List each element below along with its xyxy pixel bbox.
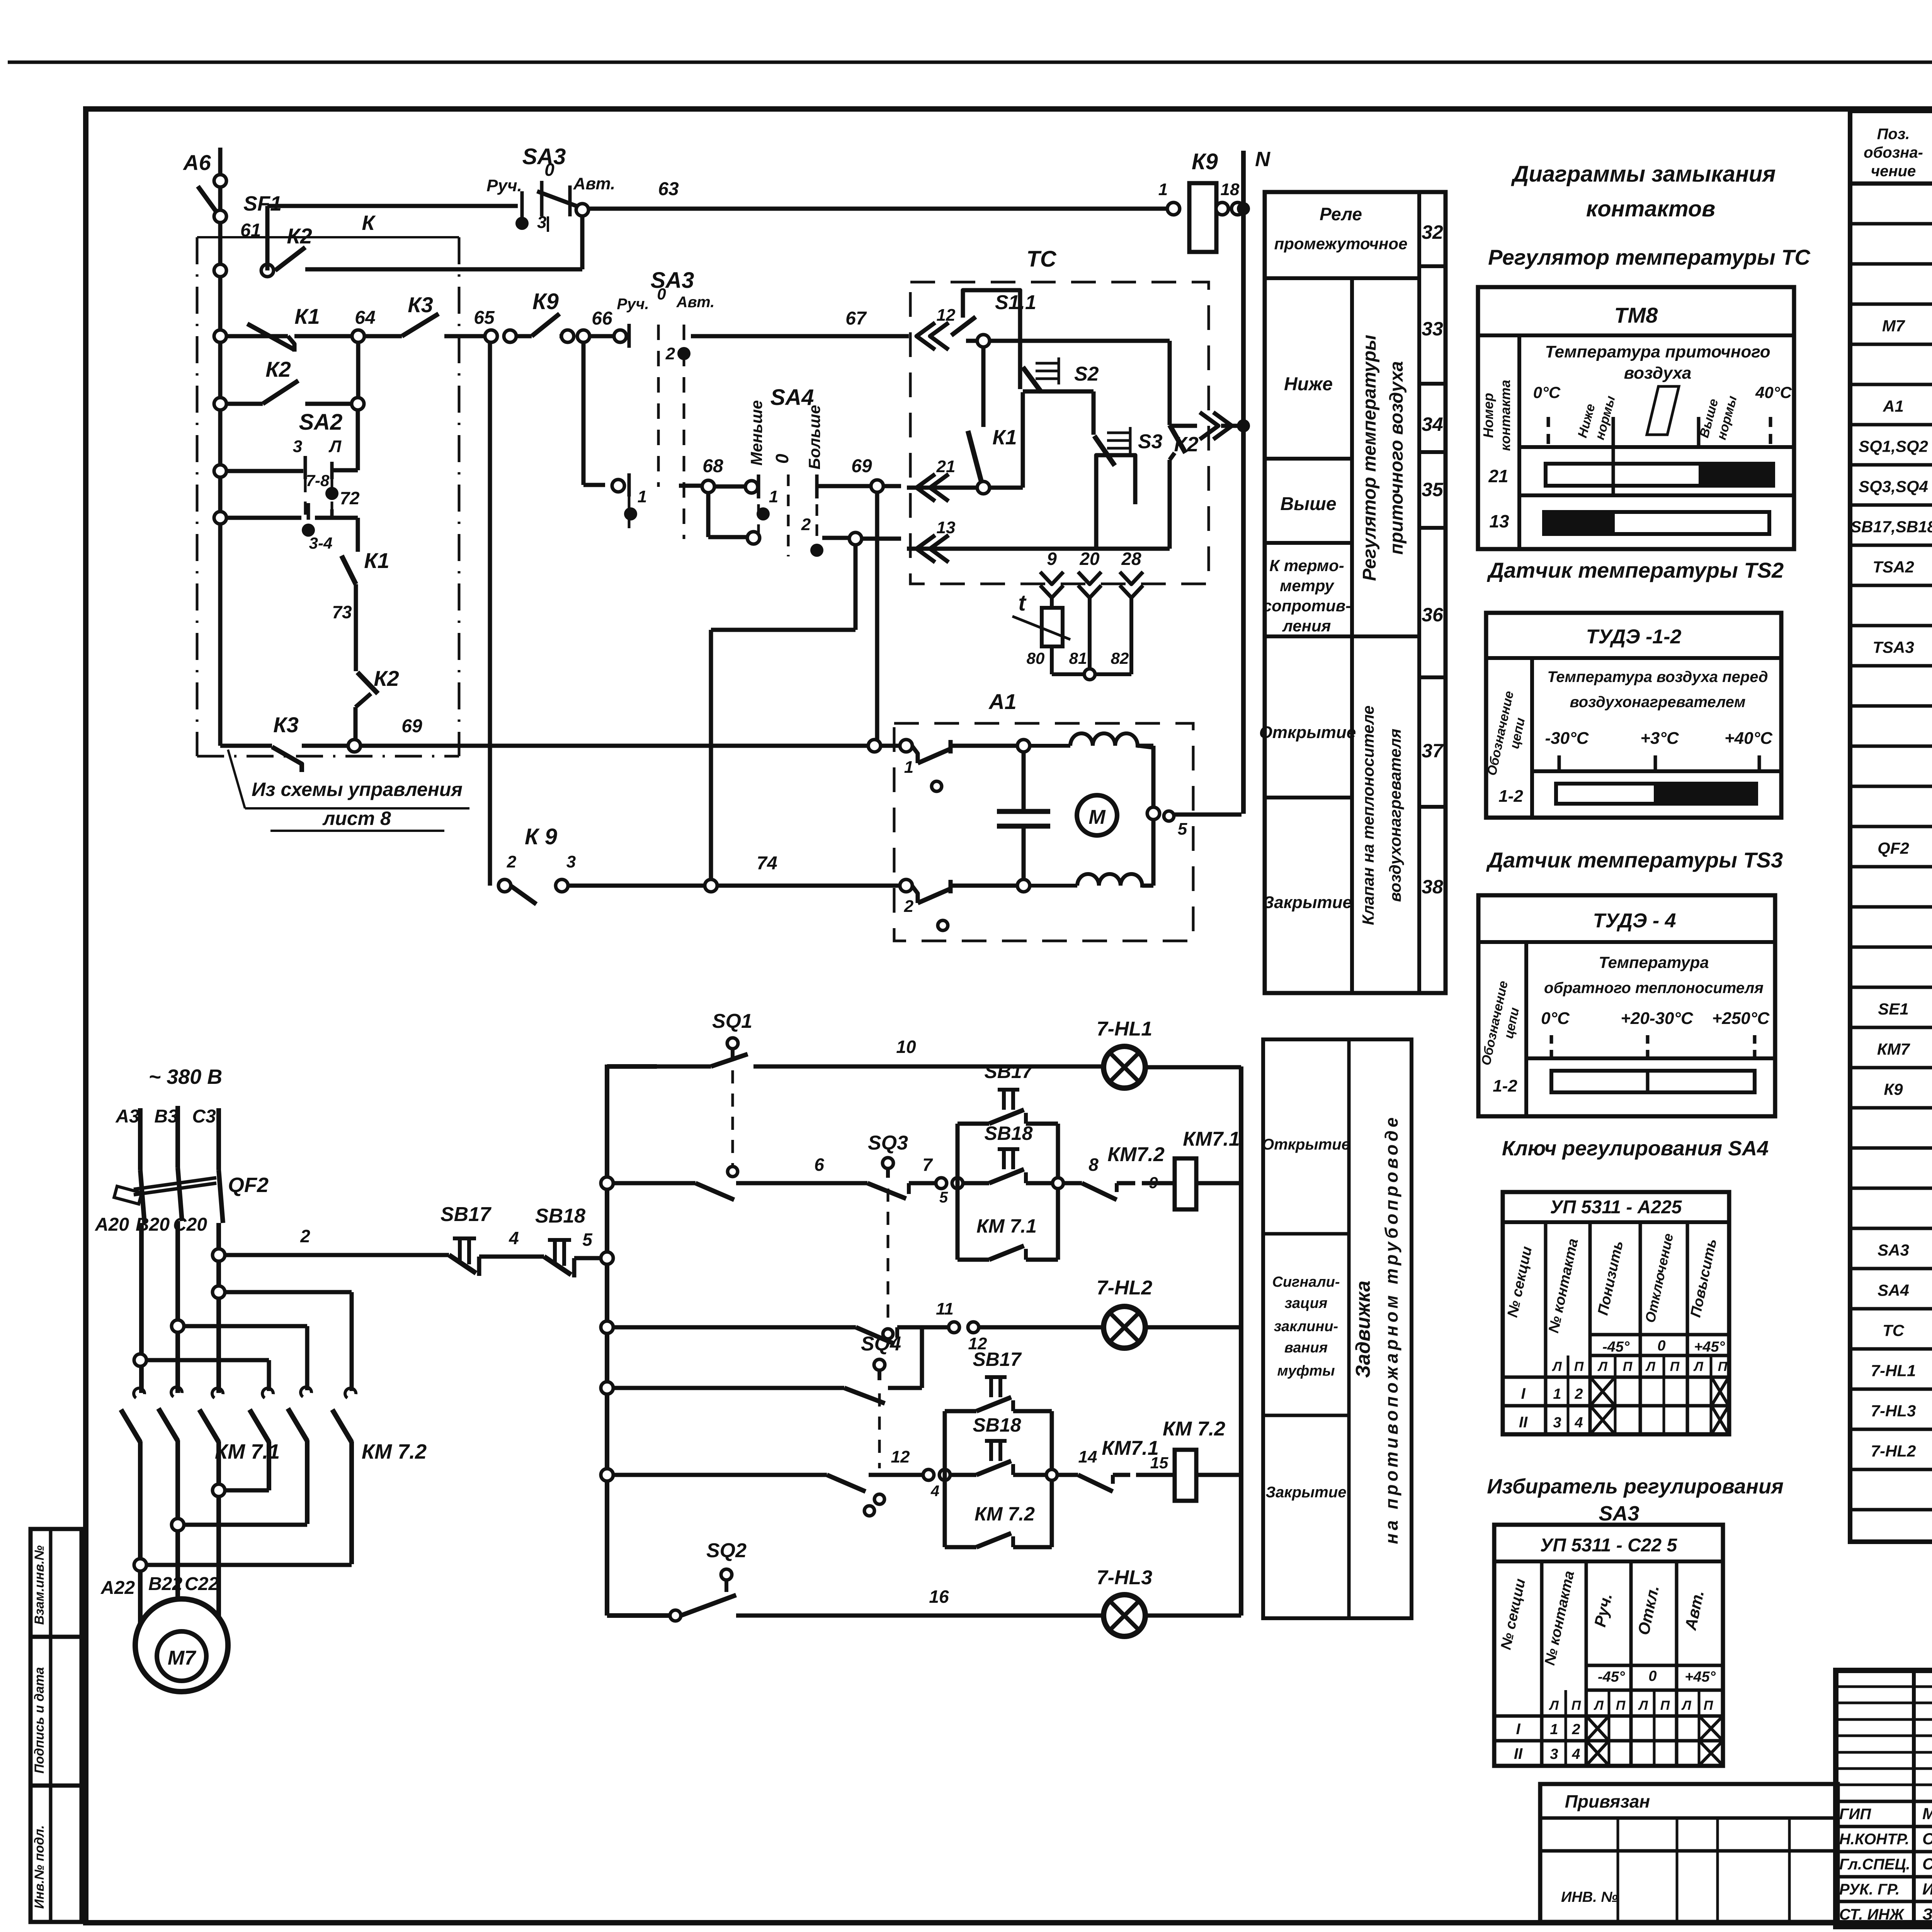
svg-text:П: П: [1718, 1359, 1728, 1374]
number cells dividers: [1419, 264, 1446, 268]
svg-text:УП 5311 - А225: УП 5311 - А225: [1550, 1197, 1682, 1218]
svg-text:КМ 7.2: КМ 7.2: [1163, 1418, 1225, 1440]
svg-text:Поз.: Поз.: [1877, 126, 1910, 143]
node 69 to SA4 riser: [868, 740, 881, 752]
spec row 5: [1850, 383, 1932, 386]
svg-text:Закрытие: Закрытие: [1263, 893, 1352, 912]
svg-text:~ 380 В: ~ 380 В: [149, 1065, 223, 1088]
svg-text:II: II: [1514, 1745, 1523, 1762]
node on ladder bus: [601, 1252, 613, 1264]
contact K2 TC: [1170, 425, 1185, 453]
svg-text:К1: К1: [992, 426, 1017, 449]
SQ1 dashed link: [731, 1070, 734, 1166]
phase B drop: [175, 1221, 180, 1393]
svg-text:73: 73: [332, 602, 352, 622]
ladder right bus: [1239, 1066, 1243, 1616]
svg-text:К3: К3: [408, 293, 433, 317]
svg-text:ИНВ. №: ИНВ. №: [1561, 1889, 1618, 1905]
svg-text:+250°С: +250°С: [1712, 1009, 1770, 1028]
svg-text:П: П: [1660, 1698, 1670, 1713]
contactor KM7.2 pole3: [345, 1388, 356, 1398]
spec row 20: [1850, 986, 1932, 989]
title block outer: [1836, 1670, 1932, 1927]
SA4 menshe tick: [757, 474, 760, 498]
diagram table TUDE-1-2: [1486, 613, 1781, 818]
svg-text:Авт.: Авт.: [573, 174, 616, 193]
svg-text:1-2: 1-2: [1493, 1077, 1517, 1095]
C225 row I: [1494, 1739, 1723, 1743]
svg-text:66: 66: [592, 308, 612, 329]
contact K2 lower rung: [214, 398, 226, 410]
contact K2 (to SA3 manual): [275, 247, 305, 270]
svg-text:П: П: [1623, 1359, 1633, 1374]
spec row 27: [1850, 1267, 1932, 1270]
svg-text:ТС: ТС: [1883, 1321, 1905, 1340]
stamp box Podpis i data: [31, 1637, 82, 1786]
svg-text:5: 5: [1178, 820, 1187, 838]
SQ3 dashed link: [887, 1189, 889, 1325]
phase C feeder: [216, 1108, 221, 1170]
SA2 dashed 3 line: [304, 479, 307, 516]
selector SA3 deck 1: [520, 191, 524, 218]
svg-text:ТУДЭ -1-2: ТУДЭ -1-2: [1586, 626, 1682, 648]
svg-text:КМ7: КМ7: [1877, 1040, 1910, 1058]
lamp 7-HL3: [1104, 1595, 1145, 1636]
svg-text:РУК. ГР.: РУК. ГР.: [1839, 1881, 1900, 1898]
svg-text:ТУДЭ - 4: ТУДЭ - 4: [1593, 910, 1676, 932]
S3 heater symbol: [1107, 432, 1130, 434]
node B out: [172, 1519, 184, 1531]
contactor KM7.2 pole1: [262, 1388, 273, 1398]
svg-text:64: 64: [355, 308, 375, 328]
svg-text:приточного воздуха: приточного воздуха: [1386, 361, 1407, 555]
svg-text:Температура воздуха перед: Температура воздуха перед: [1547, 668, 1768, 685]
spec row 18: [1850, 905, 1932, 909]
close block left riser: [943, 1411, 947, 1475]
phase C node: [213, 1286, 225, 1298]
sheet top edge line: [8, 61, 1932, 64]
rung 3 lamp HL2: [601, 1321, 613, 1333]
svg-text:SA3: SA3: [651, 268, 694, 293]
spec row 10: [1850, 584, 1932, 587]
svg-text:К2: К2: [1174, 433, 1198, 456]
svg-text:+3°С: +3°С: [1640, 729, 1679, 748]
svg-text:КМ 7.1: КМ 7.1: [976, 1215, 1037, 1237]
branch 13 down to wire 74: [854, 544, 858, 630]
svg-text:36: 36: [1422, 604, 1444, 626]
svg-text:Температура приточного: Температура приточного: [1545, 342, 1770, 361]
phase B feeder: [175, 1106, 180, 1168]
svg-text:К1: К1: [364, 548, 389, 573]
breaker SF1: [198, 186, 220, 217]
svg-text:20: 20: [1079, 549, 1100, 569]
actuator A1 dashed box: [894, 723, 1193, 941]
phase B node: [172, 1320, 184, 1332]
svg-text:1: 1: [638, 487, 647, 506]
N bus: [1241, 151, 1246, 814]
svg-text:Л: Л: [1645, 1359, 1655, 1374]
spec row 13: [1850, 704, 1932, 708]
spec row 3: [1850, 303, 1932, 306]
S1.1 top lead: [963, 290, 1020, 389]
rung K1 from bus: [214, 330, 226, 342]
svg-text:SB17: SB17: [973, 1349, 1022, 1370]
contact K1 TC: [968, 431, 982, 485]
node A6 top: [214, 175, 226, 187]
svg-text:2: 2: [300, 1226, 310, 1246]
svg-text:4: 4: [1574, 1415, 1583, 1431]
spec row 32: [1850, 1468, 1932, 1471]
svg-text:КМ 7.2: КМ 7.2: [362, 1440, 427, 1463]
svg-text:К1: К1: [294, 304, 320, 328]
connector chevron 21: [917, 474, 935, 501]
svg-text:SA3: SA3: [1878, 1241, 1909, 1259]
C225 LP row: [1494, 1714, 1723, 1718]
svg-text:I: I: [1521, 1385, 1526, 1402]
dot 3-4: [302, 524, 315, 537]
wire 2 to SB17: [224, 1253, 449, 1257]
svg-text:+45°: +45°: [1685, 1669, 1716, 1685]
contact K9 lower: [510, 886, 536, 904]
winding top arcs: [1029, 733, 1153, 748]
spec row 33: [1850, 1508, 1932, 1512]
TM8 scale ticks: [1547, 417, 1550, 447]
svg-text:обратного теплоносителя: обратного теплоносителя: [1544, 980, 1764, 997]
svg-text:Меньше: Меньше: [747, 400, 765, 466]
node 64: [294, 334, 352, 338]
svg-text:1: 1: [904, 758, 913, 777]
svg-text:1: 1: [769, 487, 778, 506]
button SB17 close branch: [945, 1409, 976, 1413]
svg-text:28: 28: [1121, 549, 1141, 569]
terminal 1 K9: [1167, 202, 1180, 215]
svg-text:Москаленко: Москаленко: [1922, 1804, 1932, 1823]
capacitor C: [1022, 752, 1026, 810]
pushbutton SB17 NC: [449, 1255, 476, 1273]
wire from node up to SA3 manual side: [265, 206, 270, 270]
svg-text:Огиенко: Огиенко: [1922, 1830, 1932, 1848]
svg-text:К: К: [362, 211, 376, 235]
contactor KM7.1 pole3: [212, 1388, 223, 1398]
svg-text:12: 12: [937, 306, 956, 325]
node bottom motor: [1017, 879, 1030, 892]
svg-text:32: 32: [1422, 221, 1443, 243]
spec row 2: [1850, 262, 1932, 266]
svg-text:15: 15: [1150, 1454, 1168, 1472]
svg-text:А3: А3: [115, 1106, 139, 1127]
rung 6 SQ2 lamp HL3: [607, 1613, 670, 1618]
svg-text:7-8: 7-8: [306, 471, 330, 490]
thermistor t: [1042, 608, 1063, 646]
svg-text:0°С: 0°С: [1533, 383, 1561, 401]
node 74 branch: [705, 879, 717, 892]
lamp 7-HL2: [1104, 1306, 1145, 1348]
svg-text:3: 3: [293, 437, 302, 456]
svg-text:Ниже: Ниже: [1284, 374, 1333, 395]
svg-text:Реле: Реле: [1320, 204, 1362, 224]
svg-text:К2: К2: [374, 666, 399, 690]
svg-text:0: 0: [772, 454, 792, 464]
svg-text:80: 80: [1027, 649, 1045, 667]
spec table outer: [1850, 111, 1932, 1542]
svg-text:QF2: QF2: [1878, 839, 1909, 858]
svg-text:Руч.: Руч.: [617, 296, 649, 313]
svg-text:7-HL1: 7-HL1: [1871, 1362, 1916, 1380]
A1 contact 1: [912, 746, 918, 763]
title block thin rows upper: [1836, 1685, 1932, 1688]
svg-text:11: 11: [936, 1299, 954, 1318]
thermometer bottom wire: [1052, 672, 1084, 676]
valve function box: [1263, 1039, 1412, 1618]
wire after K2 to SA3 output: [305, 267, 582, 272]
svg-text:82: 82: [1111, 649, 1129, 667]
svg-text:Л: Л: [1548, 1698, 1559, 1713]
SB17 actuator: [998, 1088, 1019, 1092]
svg-text:7-HL3: 7-HL3: [1871, 1402, 1916, 1420]
svg-text:заклини-: заклини-: [1274, 1318, 1338, 1335]
svg-text:контакта: контакта: [1497, 380, 1513, 451]
stamp box Vzam.inv.N: [31, 1529, 82, 1637]
wire 65 segment: [444, 334, 485, 338]
svg-text:воздухонагревателя: воздухонагревателя: [1386, 729, 1404, 902]
junction from SQ4: [922, 1325, 949, 1330]
SA2 position L tick: [330, 462, 334, 479]
svg-text:3: 3: [566, 852, 576, 871]
switch SA4 deck 2 wire to 13: [706, 492, 711, 537]
SA3 deck2 dashed position lines: [657, 325, 660, 487]
node C out: [213, 1484, 225, 1497]
svg-text:Задвижка: Задвижка: [1352, 1281, 1374, 1378]
svg-text:-30°С: -30°С: [1545, 729, 1589, 748]
svg-text:2: 2: [665, 344, 675, 363]
diagram table TUDE-4: [1478, 895, 1775, 1116]
A1 terminal 1: [900, 740, 912, 752]
svg-text:SB18: SB18: [535, 1205, 585, 1227]
svg-text:Клапан на теплоносителе: Клапан на теплоносителе: [1359, 706, 1377, 925]
svg-text:35: 35: [1422, 479, 1444, 500]
svg-text:промежуточное: промежуточное: [1274, 235, 1408, 253]
diagram table UP5311-C225: [1494, 1525, 1723, 1766]
stamp box Inv.N podl: [31, 1786, 82, 1922]
svg-text:37: 37: [1422, 740, 1444, 762]
svg-text:2: 2: [507, 852, 517, 871]
svg-text:0°С: 0°С: [1541, 1009, 1570, 1028]
svg-text:Инв.№ подл.: Инв.№ подл.: [32, 1825, 47, 1909]
SA2 dot 72: [325, 487, 338, 500]
motor M7: [135, 1599, 228, 1692]
parallel block open: left riser: [956, 1124, 960, 1183]
svg-text:воздухонагревателем: воздухонагревателем: [1570, 694, 1746, 711]
svg-text:3: 3: [1550, 1746, 1558, 1762]
svg-text:метру: метру: [1280, 577, 1335, 595]
wire 63: [588, 207, 1168, 211]
svg-text:С22: С22: [185, 1574, 219, 1594]
svg-text:Авт.: Авт.: [676, 294, 715, 311]
svg-text:TSA2: TSA2: [1872, 558, 1914, 576]
spec row 29: [1850, 1347, 1932, 1351]
svg-text:16: 16: [929, 1587, 949, 1607]
relay K9 lower rung wire 74: [488, 342, 492, 886]
svg-text:ГИП: ГИП: [1839, 1806, 1871, 1823]
SQ1 aux contact: [696, 1183, 734, 1200]
wire 66 segment: [560, 334, 568, 338]
svg-text:Температура: Температура: [1599, 953, 1709, 971]
wire winding to terminal 5: [1138, 744, 1153, 748]
svg-text:SB18: SB18: [984, 1122, 1032, 1144]
node on K2 rung: [261, 264, 274, 277]
switch SA4 deck 1 wire 68-69: [679, 484, 702, 488]
svg-text:4: 4: [930, 1483, 939, 1500]
S2 thermal blade: [1023, 367, 1041, 392]
wire 5 to N: [1175, 813, 1242, 817]
svg-text:А1: А1: [1883, 397, 1904, 415]
svg-text:Ключ регулирования SA4: Ключ регулирования SA4: [1502, 1137, 1769, 1160]
svg-text:34: 34: [1422, 413, 1443, 435]
node on line 882: [966, 339, 1170, 343]
node 69/K2: [348, 740, 361, 752]
spec row 11: [1850, 624, 1932, 628]
svg-text:Л: Л: [1551, 1359, 1562, 1374]
svg-text:6: 6: [814, 1155, 824, 1175]
svg-text:t: t: [1018, 590, 1027, 616]
svg-text:21: 21: [936, 457, 956, 476]
regulator TC dashed box: [910, 282, 1209, 584]
svg-text:К9: К9: [1192, 149, 1218, 174]
svg-text:К термо-: К термо-: [1269, 556, 1344, 575]
wire to K1 contact: [315, 516, 358, 520]
svg-text:К3: К3: [273, 713, 299, 737]
svg-text:1-2: 1-2: [1498, 787, 1523, 806]
svg-text:Открытие: Открытие: [1259, 723, 1356, 742]
svg-text:67: 67: [845, 308, 867, 329]
SQ4 aux contact: [878, 1393, 881, 1468]
svg-text:SA3: SA3: [1599, 1502, 1639, 1525]
svg-text:7-HL3: 7-HL3: [1097, 1566, 1153, 1589]
node right of K2 lower: [352, 398, 364, 410]
svg-text:Н.КОНТР.: Н.КОНТР.: [1839, 1831, 1909, 1848]
svg-text:2: 2: [801, 515, 811, 534]
svg-text:П: П: [1616, 1698, 1626, 1713]
svg-text:С3: С3: [192, 1106, 216, 1127]
svg-text:68: 68: [702, 456, 723, 476]
svg-text:SA2: SA2: [299, 410, 343, 435]
function table relay column: [1265, 192, 1446, 993]
title block vertical dividers left: [1912, 1670, 1916, 1927]
svg-text:18: 18: [1221, 180, 1240, 199]
ladder left bus: [605, 1065, 609, 1616]
svg-text:+45°: +45°: [1694, 1339, 1725, 1355]
svg-text:Л: Л: [1693, 1359, 1703, 1374]
svg-text:0: 0: [1648, 1668, 1656, 1684]
wire below S2: [1021, 392, 1025, 488]
svg-text:14: 14: [1078, 1447, 1097, 1466]
spec row 6: [1850, 423, 1932, 427]
contact KM7.2 seal branch: [945, 1545, 976, 1549]
svg-text:К2: К2: [287, 224, 312, 248]
limit switch SQ2: [721, 1569, 732, 1580]
svg-text:ЗБАР: ЗБАР: [1922, 1905, 1932, 1923]
svg-text:12: 12: [891, 1447, 910, 1466]
svg-text:9: 9: [1047, 549, 1057, 569]
phase A drop: [139, 1223, 144, 1393]
svg-text:Из схемы управления: Из схемы управления: [252, 779, 463, 800]
rung 5 close contactor: [601, 1469, 613, 1481]
contact S1.1: [951, 317, 976, 335]
contact KM7.2 NC: [1082, 1183, 1117, 1200]
svg-text:0: 0: [544, 160, 554, 180]
svg-text:СТ. ИНЖ: СТ. ИНЖ: [1839, 1906, 1905, 1923]
phase C drop: [216, 1223, 221, 1393]
contactor KM7.2 pole2: [301, 1387, 311, 1397]
spec row 31: [1850, 1428, 1932, 1431]
svg-text:М7: М7: [168, 1647, 196, 1669]
wire 4: [479, 1255, 544, 1259]
svg-text:II: II: [1519, 1414, 1528, 1431]
svg-text:К9: К9: [1884, 1080, 1903, 1099]
wire 13 inside TC: [907, 547, 1170, 551]
contactor KM7.1 pole2: [171, 1387, 182, 1397]
wire 69: [218, 740, 223, 746]
connector chevron 12: [917, 323, 935, 350]
svg-text:SQ3: SQ3: [868, 1132, 908, 1154]
SB18 actuator: [998, 1147, 1019, 1151]
rung 1 open lamp: [607, 1065, 657, 1066]
svg-text:2: 2: [1571, 1721, 1580, 1738]
svg-text:7-HL2: 7-HL2: [1871, 1442, 1916, 1460]
contact K3 on wire 69: [272, 747, 302, 772]
svg-text:2: 2: [904, 897, 914, 916]
node wire 2: [213, 1249, 225, 1261]
svg-text:S3: S3: [1138, 430, 1163, 453]
limit switch SQ3: [883, 1158, 893, 1168]
svg-text:ТМ8: ТМ8: [1614, 303, 1658, 327]
spec row 4: [1850, 343, 1932, 346]
svg-text:Л: Л: [1597, 1359, 1607, 1374]
switch SA2 rung 3: [214, 465, 226, 477]
spec row 23: [1850, 1106, 1932, 1110]
svg-text:SQ2: SQ2: [706, 1539, 747, 1562]
svg-text:3-4: 3-4: [309, 534, 333, 552]
svg-text:65: 65: [474, 308, 495, 328]
svg-text:Диаграммы замыкания: Диаграммы замыкания: [1511, 162, 1776, 187]
svg-text:Подпись и дата: Подпись и дата: [32, 1667, 47, 1774]
junction on N bus: [1237, 419, 1250, 432]
svg-text:69: 69: [401, 716, 422, 736]
privyazan box: [1540, 1784, 1838, 1922]
svg-text:САМСОНОВ: САМСОНОВ: [1922, 1855, 1932, 1873]
svg-text:К 9: К 9: [525, 824, 557, 849]
SA4 riser to wire 69: [875, 492, 879, 740]
spec row 14: [1850, 745, 1932, 748]
SA4 bolshe tick: [815, 474, 819, 498]
svg-text:SB17: SB17: [984, 1061, 1033, 1082]
svg-text:21: 21: [1488, 466, 1508, 486]
node top motor: [1017, 740, 1030, 752]
svg-text:I: I: [1516, 1721, 1520, 1738]
svg-text:40°С: 40°С: [1755, 383, 1792, 401]
crossover wire B to KM72c2: [184, 1324, 307, 1328]
svg-text:4: 4: [509, 1228, 519, 1248]
svg-text:7-HL1: 7-HL1: [1097, 1018, 1152, 1040]
svg-text:38: 38: [1422, 876, 1443, 898]
block right riser: [1056, 1124, 1060, 1260]
motor feeders: [138, 1571, 143, 1625]
node A out: [134, 1559, 146, 1571]
spec row 26: [1850, 1227, 1932, 1230]
svg-text:Взам.инв.№: Взам.инв.№: [32, 1545, 47, 1625]
contact K3 upper: [364, 334, 402, 338]
coil KM7.1: [1175, 1158, 1196, 1209]
